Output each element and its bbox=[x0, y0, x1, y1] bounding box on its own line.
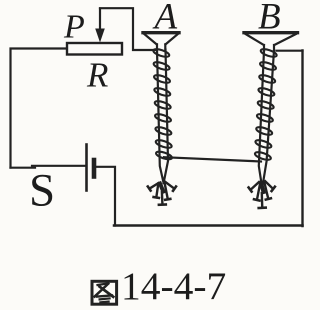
wire: bottom rail bbox=[114, 224, 303, 227]
svg-text:R: R bbox=[86, 55, 108, 94]
rheostat R body bbox=[67, 43, 122, 55]
wire: right vertical rail bbox=[301, 51, 303, 227]
electromagnet A: screw shaft bbox=[157, 50, 168, 184]
wire: coil A bottom to coil B bottom bbox=[164, 157, 261, 161]
electromagnet B: coil winding bbox=[254, 48, 277, 162]
rheostat slider arrow P bbox=[95, 9, 105, 43]
electromagnet B: screw shaft bbox=[259, 51, 274, 189]
electromagnet A: screw head bbox=[143, 33, 179, 50]
switch S (closed blade with jog) bbox=[11, 166, 87, 168]
electromagnet A: coil winding bbox=[153, 48, 173, 161]
battery cell bbox=[87, 145, 95, 191]
electromagnet A: attracted pins bbox=[148, 182, 176, 205]
wire: rheostat left terminal down left side bbox=[11, 49, 68, 168]
svg-text:14-4-7: 14-4-7 bbox=[121, 264, 226, 308]
caption: character tu (drawn glyph) bbox=[92, 281, 117, 304]
wire: slider to coil A top bbox=[100, 8, 156, 50]
electromagnet B: attracted pins bbox=[249, 181, 275, 208]
wire: coil B top to right rail bbox=[277, 50, 303, 52]
electromagnet B: screw head bbox=[244, 33, 298, 51]
wire: battery positive to bottom rail bbox=[96, 167, 115, 226]
svg-text:P: P bbox=[63, 9, 85, 46]
svg-text:S: S bbox=[29, 165, 55, 217]
